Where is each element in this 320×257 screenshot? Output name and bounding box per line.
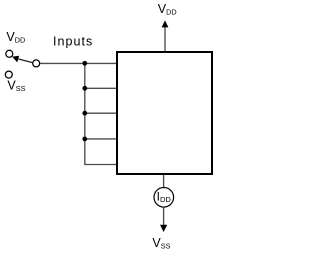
- wire input 4: [85, 138, 117, 140]
- svg-text:VDD: VDD: [158, 2, 177, 17]
- junction dot 2: [82, 86, 87, 91]
- device under test box: [117, 52, 212, 174]
- svg-text:VSS: VSS: [7, 79, 25, 94]
- svg-text:VDD: VDD: [6, 30, 25, 45]
- current meter IDD circle: [154, 188, 174, 208]
- wire IDD meter to VSS arrow: [163, 207, 165, 225]
- junction dot 4: [82, 137, 87, 142]
- arrowhead VSS (pointing down): [160, 225, 167, 232]
- wire input bus vertical: [84, 63, 86, 164]
- switch arm arrowhead: [12, 56, 19, 63]
- switch arm wire: [19, 59, 33, 63]
- wire input 1 (switch to box): [40, 62, 117, 64]
- switch terminal circle VDD: [6, 50, 13, 57]
- wire input 2: [85, 87, 117, 89]
- switch pole circle: [33, 60, 40, 67]
- wire VDD supply vertical: [164, 26, 166, 51]
- junction dot 3: [82, 111, 87, 116]
- junction dot 1: [82, 61, 87, 66]
- svg-text:Inputs: Inputs: [53, 35, 93, 49]
- arrowhead VDD (pointing up): [162, 20, 169, 27]
- wire box bottom to IDD meter: [163, 175, 165, 188]
- switch terminal circle VSS: [5, 71, 12, 78]
- svg-text:VSS: VSS: [152, 236, 170, 251]
- wire input 3: [85, 112, 117, 114]
- wire input 5 (bus elbow): [84, 164, 117, 166]
